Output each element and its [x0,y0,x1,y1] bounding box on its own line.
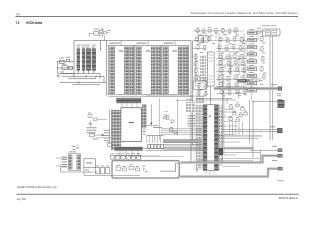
svg-text:July 1, 2003: July 1, 2003 [17,197,27,201]
svg-text:Schematics, Component Location: Schematics, Component Location Diagrams,… [191,11,299,15]
svg-text:VOCON Section: VOCON Section [26,21,42,25]
svg-text:7.3: 7.3 [16,21,20,25]
svg-text:HUANREC VOCON Board Schematic: HUANREC VOCON Board Schematic (Sheet 1 o… [17,185,57,189]
svg-text:7-38: 7-38 [16,12,20,16]
svg-text:6816741E01-C: 6816741E01-C [279,196,299,200]
